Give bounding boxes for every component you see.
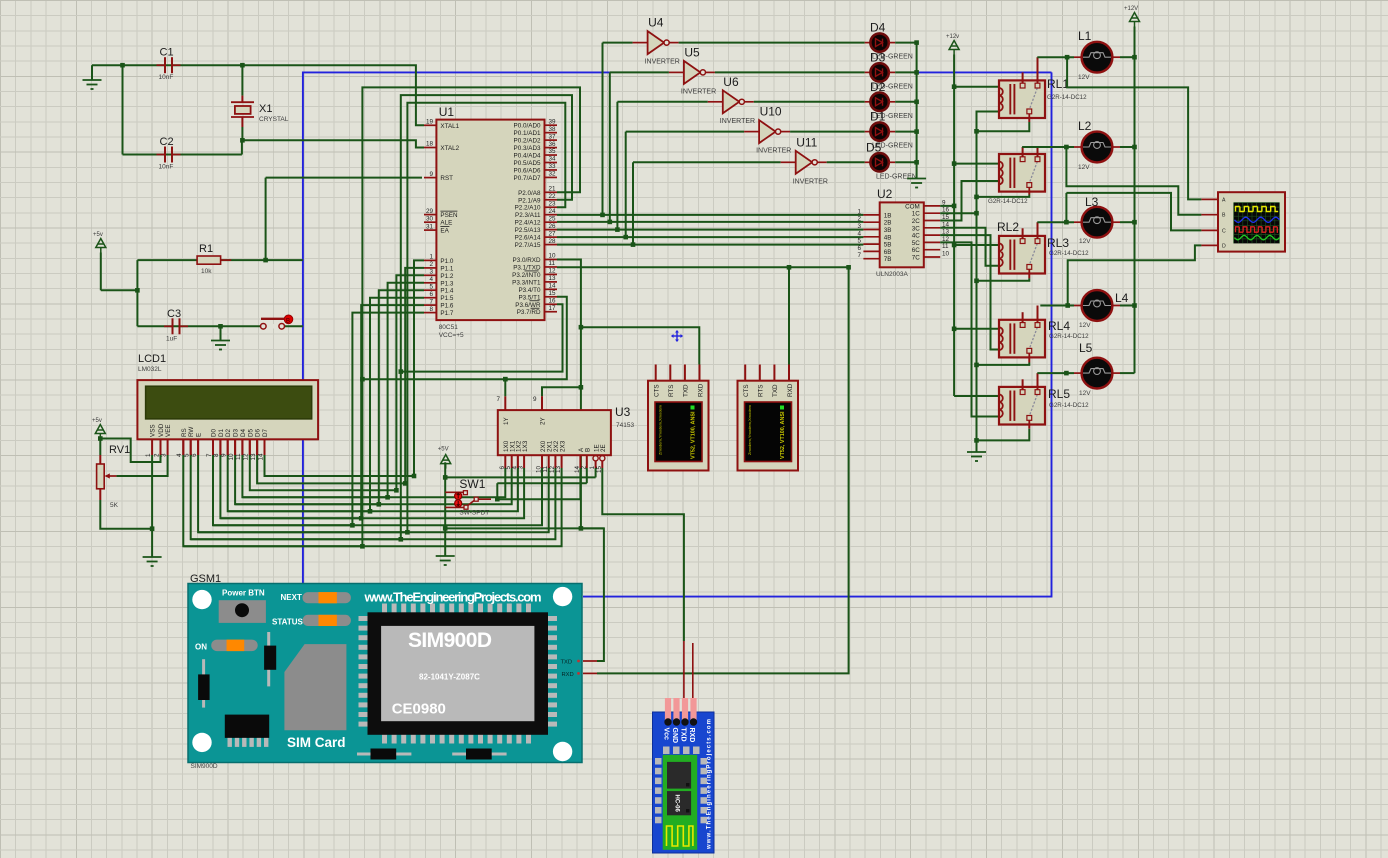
svg-text:P1.6: P1.6 [440,303,453,310]
svg-text:80C51: 80C51 [439,324,459,331]
svg-text:P3.7/RD: P3.7/RD [517,309,541,316]
svg-text:www.TheEngineeringProjects.com: www.TheEngineeringProjects.com [707,719,713,850]
svg-text:7C: 7C [912,255,921,262]
svg-text:30: 30 [426,215,434,222]
svg-text:38: 38 [549,126,557,133]
svg-text:1: 1 [429,254,433,261]
svg-text:L2: L2 [1078,119,1092,133]
svg-text:U3: U3 [615,405,631,419]
svg-text:ON: ON [195,643,207,652]
svg-text:32: 32 [549,171,557,178]
svg-text:12: 12 [549,268,557,275]
svg-text:D0: D0 [211,428,218,437]
svg-text:5C: 5C [912,240,921,247]
svg-text:D7: D7 [262,428,269,437]
svg-text:D4: D4 [240,428,247,437]
svg-text:P1.7: P1.7 [440,310,453,317]
svg-text:P0.7/AD7: P0.7/AD7 [514,175,541,182]
svg-text:12V: 12V [1078,164,1090,171]
svg-text:18: 18 [426,141,434,148]
svg-text:D4: D4 [870,21,886,35]
svg-text:B: B [585,448,592,452]
svg-text:9: 9 [429,171,433,178]
svg-text:L4: L4 [1115,291,1129,305]
svg-text:Vcc: Vcc [663,728,670,741]
svg-text:E: E [196,433,203,437]
svg-text:4: 4 [429,276,433,283]
svg-text:29: 29 [426,208,434,215]
svg-text:6: 6 [429,291,433,298]
svg-text:TXD: TXD [680,728,687,742]
svg-text:2X3: 2X3 [559,440,566,452]
svg-text:P1.0: P1.0 [440,258,453,265]
svg-text:1: 1 [857,208,861,215]
svg-text:B: B [1222,213,1226,219]
svg-text:SW-SPDT: SW-SPDT [459,509,489,516]
svg-text:C: C [1222,228,1226,234]
svg-text:P3.3/INT1: P3.3/INT1 [512,279,541,286]
svg-text:R1: R1 [199,243,213,255]
svg-text:5: 5 [429,283,433,290]
svg-text:P2.6/A14: P2.6/A14 [515,235,541,242]
svg-text:RL1: RL1 [1047,77,1069,91]
svg-text:21: 21 [549,186,557,193]
svg-text:12V: 12V [1079,390,1091,397]
svg-text:D2: D2 [225,428,232,437]
svg-text:VSS: VSS [150,424,157,437]
svg-text:ULN2003A: ULN2003A [876,271,908,278]
svg-text:INVERTER: INVERTER [756,148,791,155]
svg-text:Zmodem,Ymodem,Xmodem: Zmodem,Ymodem,Xmodem [658,404,663,455]
svg-text:XTAL2: XTAL2 [440,145,459,152]
svg-text:RL2: RL2 [997,220,1019,234]
svg-text:7: 7 [496,396,500,403]
svg-text:P1.1: P1.1 [440,265,453,272]
svg-text:XTAL1: XTAL1 [440,123,459,130]
svg-text:27: 27 [549,230,557,237]
svg-text:RV1: RV1 [109,444,130,456]
svg-text:A: A [1222,197,1226,203]
svg-text:SW1: SW1 [459,477,485,491]
svg-text:37: 37 [549,133,557,140]
svg-text:D6: D6 [255,428,262,437]
svg-text:2E: 2E [600,444,607,452]
svg-text:SIM900D: SIM900D [191,763,218,770]
svg-text:4: 4 [176,453,183,457]
svg-text:RL5: RL5 [1048,387,1070,401]
svg-text:3: 3 [857,223,861,230]
svg-text:P2.2/A10: P2.2/A10 [515,205,541,212]
svg-text:RXD: RXD [562,672,574,678]
svg-text:Zmodem,Ymodem,Xmodem: Zmodem,Ymodem,Xmodem [747,404,752,455]
svg-text:RTS: RTS [758,385,765,397]
svg-text:2: 2 [429,261,433,268]
svg-text:9: 9 [533,396,537,403]
svg-text:12: 12 [243,453,250,461]
svg-text:5K: 5K [110,502,119,509]
svg-text:10nF: 10nF [159,164,174,171]
svg-text:Power BTN: Power BTN [222,589,265,598]
svg-text:CTS: CTS [654,384,661,397]
svg-text:X1: X1 [259,103,272,115]
svg-text:P3.4/T0: P3.4/T0 [518,287,541,294]
svg-text:2C: 2C [912,218,921,225]
svg-text:4: 4 [857,230,861,237]
svg-text:19: 19 [426,119,434,126]
svg-text:VCC=+5: VCC=+5 [439,332,464,339]
svg-text:7: 7 [429,298,433,305]
svg-text:D5: D5 [247,428,254,437]
svg-text:1X3: 1X3 [522,440,529,452]
svg-text:6B: 6B [884,249,892,256]
svg-text:3C: 3C [912,225,921,232]
svg-text:P3.2/INT0: P3.2/INT0 [512,272,541,279]
svg-text:L3: L3 [1085,195,1099,209]
svg-text:36: 36 [549,141,557,148]
svg-text:RL3: RL3 [1047,236,1069,250]
svg-text:www.TheEngineeringProjects.com: www.TheEngineeringProjects.com [364,590,542,605]
svg-text:12V: 12V [1079,238,1091,245]
svg-text:CE0980: CE0980 [392,701,446,718]
svg-text:P3.0/RXD: P3.0/RXD [513,257,541,264]
svg-text:+12V: +12V [1124,6,1138,12]
svg-text:5: 5 [857,238,861,245]
svg-text:35: 35 [549,148,557,155]
svg-text:HC-06: HC-06 [673,795,679,813]
svg-text:24: 24 [549,208,557,215]
svg-text:C1: C1 [160,47,174,59]
svg-text:1C: 1C [912,211,921,218]
svg-text:1B: 1B [884,212,892,219]
svg-text:17: 17 [549,305,557,312]
svg-text:D: D [1222,243,1226,249]
svg-text:39: 39 [549,118,557,125]
svg-text:1Y: 1Y [503,416,510,425]
svg-text:CTS: CTS [743,384,750,397]
svg-text:82-1041Y-Z087C: 82-1041Y-Z087C [419,673,480,682]
svg-text:P0.6/AD6: P0.6/AD6 [514,167,541,174]
svg-text:VT52, VT100, ANSI: VT52, VT100, ANSI [691,411,697,459]
svg-text:EA: EA [440,228,449,235]
svg-text:13: 13 [549,275,557,282]
svg-text:P3.1/TXD: P3.1/TXD [513,264,541,271]
svg-text:25: 25 [549,215,557,222]
svg-text:L5: L5 [1079,341,1093,355]
svg-text:P3.5/T1: P3.5/T1 [518,294,541,301]
svg-text:D3: D3 [870,50,886,64]
svg-text:10k: 10k [201,268,212,275]
svg-text:1uF: 1uF [166,335,177,342]
svg-text:INVERTER: INVERTER [793,178,828,185]
svg-text:D1: D1 [870,110,886,124]
svg-text:U4: U4 [648,16,664,30]
svg-text:22: 22 [549,193,557,200]
svg-text:3: 3 [518,466,525,470]
svg-text:34: 34 [549,156,557,163]
svg-text:2Y: 2Y [540,416,547,425]
svg-text:L1: L1 [1078,29,1092,43]
svg-text:31: 31 [426,223,434,230]
svg-text:P0.1/AD1: P0.1/AD1 [514,130,541,137]
svg-text:7: 7 [206,453,213,457]
svg-text:2: 2 [153,453,160,457]
svg-text:U5: U5 [684,45,700,59]
svg-text:P2.3/A11: P2.3/A11 [515,212,541,219]
svg-text:P0.4/AD4: P0.4/AD4 [514,153,541,160]
svg-text:3: 3 [429,269,433,276]
svg-text:SIM900D: SIM900D [408,629,492,652]
svg-text:3B: 3B [884,227,892,234]
svg-text:10: 10 [549,253,557,260]
svg-text:6: 6 [857,245,861,252]
svg-text:15: 15 [596,466,603,474]
svg-text:P1.2: P1.2 [440,273,453,280]
svg-text:8: 8 [213,453,220,457]
svg-text:VEE: VEE [165,424,172,437]
svg-text:INVERTER: INVERTER [645,59,680,66]
svg-text:2: 2 [857,216,861,223]
svg-text:5B: 5B [884,242,892,249]
svg-text:SIM Card: SIM Card [287,735,346,750]
svg-text:COM: COM [905,203,920,210]
svg-text:+12v: +12v [946,34,959,40]
svg-text:2B: 2B [884,220,892,227]
svg-text:INVERTER: INVERTER [681,88,716,95]
svg-text:+5V: +5V [438,447,449,453]
svg-text:+5v: +5v [92,418,102,424]
svg-text:LCD1: LCD1 [138,353,166,365]
svg-text:8: 8 [429,306,433,313]
svg-text:G2R-14-DC12: G2R-14-DC12 [988,198,1028,205]
svg-text:B: B [286,318,290,324]
svg-text:23: 23 [549,200,557,207]
svg-text:9: 9 [221,453,228,457]
svg-text:RS: RS [181,428,188,437]
svg-text:VT52, VT100, ANSI: VT52, VT100, ANSI [780,411,786,459]
svg-text:GND: GND [671,728,678,744]
svg-text:P2.1/A9: P2.1/A9 [518,197,541,204]
svg-text:2: 2 [580,466,587,470]
svg-text:U2: U2 [877,187,893,201]
svg-text:12V: 12V [1078,74,1090,81]
svg-text:P1.5: P1.5 [440,295,453,302]
svg-text:STATUS: STATUS [272,618,303,627]
svg-text:D2: D2 [870,80,886,94]
svg-text:10: 10 [942,251,950,258]
svg-text:6: 6 [191,453,198,457]
svg-text:RXD: RXD [688,728,695,743]
svg-text:7: 7 [857,252,861,259]
svg-text:G2R-14-DC12: G2R-14-DC12 [1049,250,1089,257]
svg-text:4B: 4B [884,234,892,241]
svg-text:11: 11 [235,453,242,460]
svg-text:6C: 6C [912,247,921,254]
svg-text:RST: RST [440,175,453,182]
svg-text:CRYSTAL: CRYSTAL [259,116,289,123]
svg-text:RL4: RL4 [1048,319,1070,333]
svg-text:14: 14 [257,453,264,461]
svg-text:INVERTER: INVERTER [720,118,755,125]
svg-text:5: 5 [184,453,191,457]
svg-text:26: 26 [549,223,557,230]
svg-text:TXD: TXD [772,384,779,397]
svg-text:U1: U1 [439,105,455,119]
svg-text:P0.2/AD2: P0.2/AD2 [514,138,541,145]
svg-text:D5: D5 [866,140,882,154]
svg-text:D3: D3 [233,428,240,437]
svg-text:1: 1 [145,453,152,457]
svg-text:15: 15 [549,290,557,297]
svg-text:RTS: RTS [668,385,675,397]
svg-text:NEXT: NEXT [281,593,302,602]
svg-text:U10: U10 [760,105,782,119]
svg-text:16: 16 [549,297,557,304]
svg-text:4C: 4C [912,233,921,240]
svg-text:P0.5/AD5: P0.5/AD5 [514,160,541,167]
svg-text:P1.3: P1.3 [440,280,453,287]
svg-text:P2.0/A8: P2.0/A8 [518,190,541,197]
svg-text:P1.4: P1.4 [440,288,453,295]
svg-text:C2: C2 [160,136,174,148]
svg-text:10nF: 10nF [159,74,174,81]
svg-text:RXD: RXD [787,383,794,397]
svg-text:13: 13 [250,453,257,461]
svg-text:7B: 7B [884,256,892,263]
svg-text:P2.5/A13: P2.5/A13 [515,227,541,234]
svg-text:VDD: VDD [158,423,165,437]
svg-text:P0.0/AD0: P0.0/AD0 [514,123,541,130]
svg-text:TXD: TXD [683,384,690,397]
svg-text:TXD: TXD [561,660,573,666]
svg-text:+5v: +5v [93,232,103,238]
svg-text:10: 10 [228,453,235,461]
svg-text:ALE: ALE [440,220,452,227]
svg-text:U11: U11 [796,135,817,149]
svg-text:RW: RW [188,427,195,437]
svg-text:G2R-14-DC12: G2R-14-DC12 [1049,333,1089,340]
svg-text:11: 11 [942,243,949,250]
svg-text:RXD: RXD [697,383,704,397]
svg-text:D1: D1 [218,428,225,437]
svg-text:P2.4/A12: P2.4/A12 [515,220,541,227]
svg-text:13: 13 [555,466,562,474]
svg-text:U6: U6 [723,75,739,89]
svg-text:74153: 74153 [616,422,634,429]
svg-text:14: 14 [549,283,557,290]
svg-text:12V: 12V [1079,322,1091,329]
svg-text:C3: C3 [167,308,181,320]
svg-text:28: 28 [549,238,557,245]
svg-text:LM032L: LM032L [138,366,162,373]
svg-text:33: 33 [549,163,557,170]
svg-text:PSEN: PSEN [440,212,458,219]
svg-text:11: 11 [549,260,556,267]
svg-text:P2.7/A15: P2.7/A15 [515,242,541,249]
svg-text:P3.6/WR: P3.6/WR [515,302,541,309]
svg-text:G2R-14-DC12: G2R-14-DC12 [1049,402,1089,409]
svg-text:P0.3/AD3: P0.3/AD3 [514,145,541,152]
svg-text:G2R-14-DC12: G2R-14-DC12 [1047,94,1087,101]
